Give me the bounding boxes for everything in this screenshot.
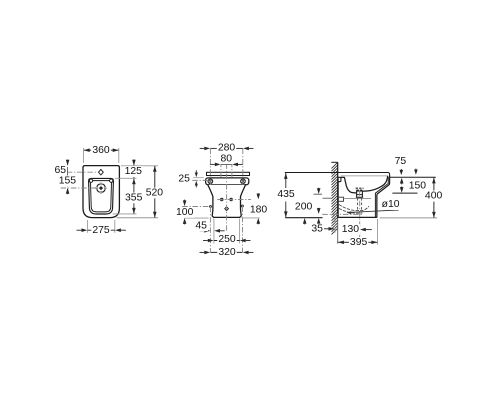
svg-text:130: 130 [342,224,360,235]
svg-text:435: 435 [277,189,295,200]
svg-text:250: 250 [218,234,236,245]
svg-text:25: 25 [178,173,190,184]
svg-text:360: 360 [92,145,110,156]
svg-text:65: 65 [55,165,67,176]
svg-text:275: 275 [92,225,110,236]
svg-text:80: 80 [221,153,233,164]
svg-text:75: 75 [395,156,407,167]
svg-text:395: 395 [350,237,368,248]
svg-text:ø10: ø10 [382,199,400,210]
svg-text:400: 400 [425,191,443,202]
svg-text:125: 125 [125,166,143,177]
svg-text:180: 180 [250,204,268,215]
svg-text:520: 520 [146,188,164,199]
svg-text:45: 45 [195,220,207,231]
svg-text:355: 355 [125,192,143,203]
svg-text:280: 280 [218,142,236,153]
svg-text:35: 35 [311,224,323,235]
svg-text:155: 155 [59,175,77,186]
svg-text:150: 150 [409,180,427,191]
svg-text:320: 320 [218,247,236,258]
svg-text:200: 200 [295,202,313,213]
svg-text:100: 100 [176,207,194,218]
